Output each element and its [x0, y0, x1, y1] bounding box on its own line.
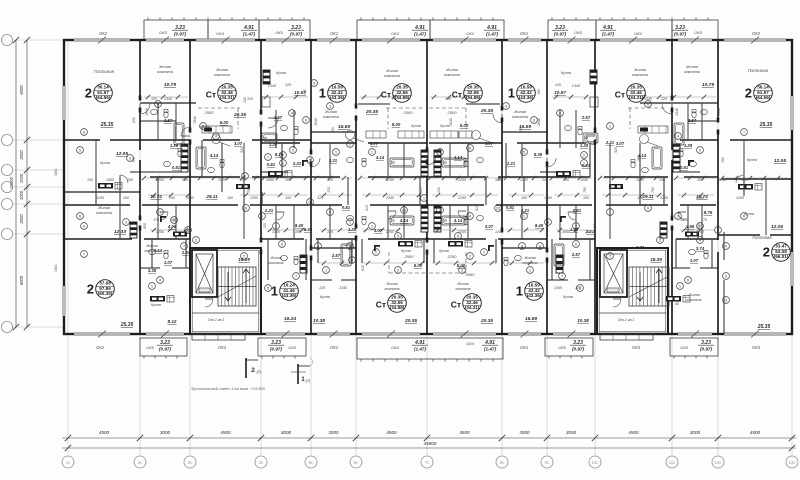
svg-text:100: 100 — [295, 230, 301, 234]
svg-text:100: 100 — [583, 196, 589, 200]
svg-text:2.57: 2.57 — [331, 253, 341, 258]
svg-text:(1.47): (1.47) — [602, 32, 614, 37]
svg-text:3000: 3000 — [690, 430, 701, 435]
svg-text:12.33: 12.33 — [114, 229, 126, 235]
svg-text:ОК5: ОК5 — [680, 345, 688, 350]
apartment marker 2 bottom left — [87, 280, 115, 299]
svg-text:12.05: 12.05 — [116, 151, 128, 157]
elevator right — [600, 250, 627, 297]
svg-text:4500: 4500 — [628, 430, 639, 435]
svg-text:18800: 18800 — [9, 177, 14, 189]
svg-text:4.96: 4.96 — [685, 224, 695, 229]
svg-text:комната: комната — [522, 261, 537, 265]
svg-text:4500: 4500 — [99, 430, 110, 435]
svg-text:Фронтальный навес 1 на отм. +2: Фронтальный навес 1 на отм. +23.900 — [191, 386, 266, 391]
svg-text:1060: 1060 — [544, 196, 552, 200]
corridor wall y=205 — [64, 204, 130, 206]
svg-text:1: 1 — [516, 284, 523, 299]
svg-text:2с: 2с — [138, 460, 143, 465]
svg-text:комната: комната — [632, 73, 648, 77]
svg-text:комната: комната — [686, 298, 701, 302]
svg-text:5: 5 — [309, 158, 311, 162]
svg-text:1200: 1200 — [250, 196, 258, 200]
stair flight left — [218, 267, 256, 306]
svg-text:3.07: 3.07 — [485, 141, 494, 146]
svg-text:9: 9 — [699, 148, 701, 152]
svg-text:2: 2 — [699, 224, 701, 228]
entrance platform right — [600, 334, 653, 340]
apartment marker 1 bottom x277 — [271, 282, 299, 301]
svg-text:8: 8 — [244, 174, 246, 178]
svg-text:45800: 45800 — [424, 441, 437, 446]
svg-text:3.07: 3.07 — [234, 141, 243, 146]
svg-text:10.38: 10.38 — [313, 318, 325, 324]
svg-text:9: 9 — [647, 206, 649, 210]
windows bottom wall — [74, 332, 130, 335]
svg-text:Кухня: Кухня — [411, 124, 421, 128]
svg-text:4: 4 — [559, 111, 561, 115]
svg-text:3.07: 3.07 — [370, 141, 379, 146]
svg-text:16.24: 16.24 — [284, 316, 296, 322]
svg-text:(0.97): (0.97) — [174, 32, 186, 37]
svg-text:25.35: 25.35 — [100, 122, 114, 128]
svg-text:7с: 7с — [425, 460, 430, 465]
svg-text:16.59: 16.59 — [338, 124, 350, 130]
svg-text:16.59: 16.59 — [519, 124, 531, 130]
svg-text:ОК1: ОК1 — [330, 31, 338, 36]
svg-text:2000: 2000 — [19, 150, 24, 161]
svg-text:7: 7 — [267, 155, 269, 159]
svg-text:(43.36): (43.36) — [527, 293, 542, 298]
svg-text:(0.97): (0.97) — [674, 32, 686, 37]
svg-text:100: 100 — [521, 196, 527, 200]
svg-text:1: 1 — [508, 86, 515, 101]
vertical tub bay 140-190 — [174, 123, 184, 145]
balcony bottom center large — [357, 338, 503, 359]
svg-text:2.57: 2.57 — [687, 118, 697, 123]
apartment marker Ст 4 — [615, 84, 646, 103]
svg-text:2290: 2290 — [385, 196, 394, 200]
svg-text:ОК4: ОК4 — [466, 341, 474, 346]
svg-text:4: 4 — [539, 244, 541, 248]
svg-text:5: 5 — [313, 81, 315, 85]
svg-text:Ст: Ст — [381, 90, 391, 100]
svg-text:8.12: 8.12 — [168, 319, 177, 324]
svg-text:100: 100 — [445, 97, 451, 101]
kitchen counters studio bays — [202, 126, 232, 133]
black corner symbols — [374, 245, 380, 251]
entrance platform left — [192, 334, 245, 340]
svg-text:3.74: 3.74 — [696, 246, 705, 251]
svg-text:(34.31): (34.31) — [465, 305, 480, 310]
left dim chain — [26, 40, 28, 327]
svg-text:4500: 4500 — [386, 430, 397, 435]
svg-text:100: 100 — [741, 178, 747, 182]
svg-text:2.57: 2.57 — [581, 115, 591, 120]
svg-text:3.07: 3.07 — [616, 141, 625, 146]
svg-text:ОК4: ОК4 — [391, 345, 399, 350]
svg-text:760: 760 — [721, 157, 725, 163]
svg-text:100: 100 — [563, 178, 569, 182]
svg-text:2.21: 2.21 — [264, 208, 274, 213]
stair arrows right — [658, 270, 660, 303]
svg-text:9: 9 — [547, 220, 549, 224]
svg-text:Жилая: Жилая — [513, 110, 526, 114]
svg-text:11с: 11с — [669, 460, 677, 465]
svg-text:(34.88): (34.88) — [395, 95, 410, 100]
svg-text:16.59: 16.59 — [525, 316, 537, 322]
svg-text:2.57: 2.57 — [273, 115, 283, 120]
svg-text:10.79: 10.79 — [702, 82, 714, 88]
svg-text:1.28: 1.28 — [684, 143, 693, 148]
svg-text:610: 610 — [361, 265, 365, 271]
svg-text:ОК1: ОК1 — [54, 168, 58, 175]
svg-text:(64.56): (64.56) — [96, 95, 111, 100]
svg-text:2250: 2250 — [457, 178, 466, 182]
svg-text:1с: 1с — [66, 460, 71, 465]
svg-text:550: 550 — [187, 155, 191, 161]
svg-text:комната: комната — [684, 70, 700, 74]
svg-text:ОК2: ОК2 — [752, 31, 761, 36]
svg-text:Ст: Ст — [452, 90, 462, 100]
svg-text:1200: 1200 — [636, 178, 644, 182]
svg-text:6: 6 — [157, 102, 159, 106]
svg-text:комната: комната — [96, 211, 112, 215]
svg-text:ОК2: ОК2 — [99, 31, 108, 36]
svg-text:4: 4 — [725, 244, 727, 248]
svg-text:1340: 1340 — [268, 84, 277, 88]
lower partitions y=280 — [311, 279, 332, 281]
svg-text:20.35: 20.35 — [404, 318, 417, 324]
svg-text:190: 190 — [537, 89, 541, 95]
axis wall x=261 — [260, 40, 262, 112]
dim chain line y=97 top bays — [144, 96, 188, 98]
svg-text:120: 120 — [419, 187, 423, 193]
balcony bottom small — [140, 338, 187, 356]
svg-text:3000: 3000 — [328, 430, 339, 435]
svg-text:3: 3 — [725, 298, 727, 302]
svg-text:1: 1 — [151, 284, 153, 288]
svg-text:Гостиная: Гостиная — [94, 69, 115, 74]
svg-text:8.75: 8.75 — [704, 210, 713, 215]
door swing arcs — [140, 104, 150, 114]
svg-text:Кухня: Кухня — [100, 161, 110, 165]
svg-text:12с: 12с — [714, 460, 722, 465]
svg-text:Сек.1 кв.1: Сек.1 кв.1 — [618, 318, 635, 322]
svg-text:6000: 6000 — [19, 275, 24, 285]
svg-text:(43.36): (43.36) — [519, 95, 534, 100]
svg-text:1: 1 — [282, 161, 284, 165]
svg-text:(64.56): (64.56) — [756, 95, 771, 100]
axis wall x=427 — [426, 40, 428, 150]
svg-text:0.81: 0.81 — [506, 205, 515, 210]
svg-text:760: 760 — [247, 187, 251, 193]
svg-text:(7): (7) — [257, 370, 262, 374]
svg-text:25.35: 25.35 — [120, 322, 134, 328]
svg-text:Кухня: Кухня — [747, 158, 757, 162]
svg-text:Жилая: Жилая — [687, 293, 699, 297]
svg-text:4: 4 — [159, 278, 161, 282]
svg-text:1340: 1340 — [554, 286, 562, 290]
svg-text:100: 100 — [659, 178, 665, 182]
svg-text:0.81: 0.81 — [172, 165, 181, 170]
svg-text:23: 23 — [496, 206, 500, 210]
svg-text:2250: 2250 — [385, 230, 394, 234]
svg-text:2.57: 2.57 — [163, 118, 173, 123]
vestibule divider left — [192, 312, 259, 314]
svg-text:1: 1 — [583, 161, 585, 165]
svg-text:ОК5: ОК5 — [574, 30, 582, 35]
svg-text:5: 5 — [397, 234, 399, 238]
extension lines horizontal left — [13, 39, 64, 41]
svg-text:3: 3 — [505, 104, 507, 108]
svg-text:4: 4 — [699, 238, 701, 242]
svg-text:2.21: 2.21 — [520, 208, 530, 213]
svg-text:(1.47): (1.47) — [484, 347, 496, 352]
svg-text:5с: 5с — [309, 460, 314, 465]
svg-text:5.40: 5.40 — [304, 227, 313, 232]
svg-text:120: 120 — [247, 97, 253, 101]
stairwell left walls — [190, 248, 261, 334]
svg-text:7: 7 — [83, 252, 85, 256]
svg-text:2: 2 — [243, 254, 245, 258]
axis wall x=547 — [546, 40, 548, 152]
svg-text:2250: 2250 — [155, 178, 164, 182]
svg-text:9: 9 — [83, 224, 85, 228]
svg-text:(1.47): (1.47) — [414, 32, 426, 37]
svg-text:120: 120 — [495, 178, 501, 182]
svg-text:ОК5: ОК5 — [275, 30, 283, 35]
svg-text:Жилая: Жилая — [145, 244, 157, 248]
svg-text:2.57: 2.57 — [571, 252, 581, 257]
axis wall x=190 — [189, 40, 191, 130]
svg-text:1200: 1200 — [660, 196, 668, 200]
svg-text:ОК3: ОК3 — [632, 345, 641, 350]
svg-text:2250: 2250 — [385, 178, 394, 182]
svg-text:1060: 1060 — [718, 178, 726, 182]
svg-text:1060: 1060 — [106, 178, 114, 182]
svg-text:3.07: 3.07 — [485, 224, 494, 229]
svg-text:Кухня: Кухня — [561, 71, 571, 75]
svg-text:ОК4: ОК4 — [466, 31, 474, 36]
svg-text:100: 100 — [123, 196, 129, 200]
svg-text:Ст: Ст — [451, 300, 461, 310]
svg-text:Жилая: Жилая — [324, 110, 337, 114]
svg-text:650: 650 — [132, 117, 136, 123]
svg-text:2: 2 — [763, 245, 770, 260]
apartment marker Ст bottom x384 — [376, 294, 407, 313]
svg-text:3: 3 — [397, 268, 399, 272]
svg-text:1: 1 — [523, 214, 525, 218]
svg-text:Жилая: Жилая — [456, 282, 468, 286]
svg-text:550: 550 — [331, 127, 335, 133]
svg-text:120: 120 — [327, 230, 333, 234]
svg-text:100: 100 — [585, 230, 591, 234]
svg-text:Кухня: Кухня — [563, 295, 573, 299]
svg-text:4.14: 4.14 — [453, 218, 463, 223]
axis wall x=718 — [717, 40, 719, 120]
svg-text:Кухня: Кухня — [439, 249, 449, 253]
svg-text:комната: комната — [384, 74, 400, 78]
svg-text:1: 1 — [202, 124, 204, 128]
svg-text:650: 650 — [143, 223, 147, 229]
svg-text:1200: 1200 — [520, 178, 528, 182]
svg-text:100: 100 — [169, 196, 175, 200]
svg-text:8.39: 8.39 — [534, 152, 543, 157]
svg-text:ОК1: ОК1 — [520, 345, 528, 350]
svg-text:2: 2 — [251, 367, 255, 374]
svg-text:1: 1 — [677, 214, 679, 218]
wall y=248 one-room bays bottom — [311, 247, 356, 249]
svg-text:0.81: 0.81 — [680, 165, 689, 170]
svg-text:4: 4 — [351, 258, 353, 262]
svg-text:(60.35): (60.35) — [98, 291, 113, 296]
svg-text:1000: 1000 — [19, 190, 24, 200]
svg-text:10.38: 10.38 — [577, 318, 589, 323]
svg-text:4: 4 — [317, 244, 319, 248]
svg-text:(34.31): (34.31) — [220, 95, 235, 100]
svg-text:4500: 4500 — [220, 430, 231, 435]
svg-text:4.14: 4.14 — [399, 218, 409, 223]
door jambs — [139, 96, 142, 101]
svg-text:4: 4 — [291, 111, 293, 115]
svg-text:120: 120 — [263, 223, 267, 229]
svg-text:Жилая: Жилая — [633, 68, 646, 72]
svg-text:2.21: 2.21 — [506, 161, 516, 166]
svg-text:6: 6 — [575, 242, 577, 246]
svg-text:100: 100 — [227, 196, 233, 200]
svg-text:(7): (7) — [306, 379, 311, 383]
elevator left — [192, 250, 217, 297]
balcony top A — [144, 20, 310, 40]
svg-text:120: 120 — [319, 286, 325, 290]
svg-text:ОК1: ОК1 — [520, 31, 528, 36]
dimension line bottom total — [62, 447, 796, 449]
svg-text:комната: комната — [512, 115, 528, 119]
svg-text:3: 3 — [125, 220, 127, 224]
svg-text:ОК5: ОК5 — [159, 30, 167, 35]
svg-text:2: 2 — [583, 153, 585, 157]
wall y=104 studio niche stubs — [358, 103, 390, 105]
svg-text:Сек.1 кв.1: Сек.1 кв.1 — [208, 318, 225, 322]
svg-text:1940: 1940 — [193, 116, 197, 124]
svg-text:3.07: 3.07 — [374, 228, 383, 233]
svg-text:7: 7 — [561, 274, 563, 278]
svg-text:4.14: 4.14 — [453, 155, 463, 160]
svg-text:(0.97): (0.97) — [159, 347, 171, 352]
svg-text:5: 5 — [79, 148, 81, 152]
svg-text:1940: 1940 — [145, 108, 149, 116]
svg-text:0.81: 0.81 — [267, 162, 276, 167]
svg-text:3: 3 — [579, 286, 581, 290]
svg-text:7: 7 — [295, 274, 297, 278]
svg-text:170: 170 — [701, 218, 707, 222]
svg-text:3: 3 — [329, 104, 331, 108]
svg-text:1340: 1340 — [572, 84, 581, 88]
svg-text:Гостиная: Гостиная — [752, 235, 772, 240]
svg-text:Жилая: Жилая — [385, 282, 397, 286]
wall y=140 upper band — [64, 139, 100, 141]
svg-text:1: 1 — [349, 220, 351, 224]
kitchen wall y=192 left — [64, 191, 140, 193]
dim chain line y=195 — [148, 194, 190, 196]
svg-text:1: 1 — [609, 210, 611, 214]
svg-text:760: 760 — [651, 187, 655, 193]
svg-text:1200: 1200 — [736, 196, 744, 200]
svg-text:комната: комната — [444, 73, 460, 77]
svg-text:ОК3: ОК3 — [752, 345, 761, 350]
svg-text:комната: комната — [455, 287, 470, 291]
axis circles left — [1, 34, 12, 45]
svg-text:120: 120 — [661, 97, 667, 101]
svg-text:170: 170 — [153, 218, 159, 222]
svg-text:12.05: 12.05 — [774, 158, 786, 164]
svg-text:6с: 6с — [354, 460, 359, 465]
bathroom top wall y=103 — [140, 102, 196, 104]
svg-text:100: 100 — [87, 178, 93, 182]
svg-text:(34.88): (34.88) — [390, 305, 405, 310]
svg-text:760: 760 — [583, 187, 587, 193]
kitchen stoves dark — [98, 183, 122, 190]
svg-text:5: 5 — [659, 238, 661, 242]
svg-text:Кухня: Кухня — [401, 249, 411, 253]
svg-text:1: 1 — [159, 210, 161, 214]
svg-text:29.11: 29.11 — [205, 194, 218, 199]
svg-text:6: 6 — [469, 146, 471, 150]
apartment marker Ст bottom x453 — [451, 294, 482, 313]
balcony dividers — [207, 20, 209, 40]
svg-text:1: 1 — [529, 268, 531, 272]
apartment marker 1 bottom x516 — [516, 282, 544, 301]
windows left wall — [62, 86, 65, 120]
corridor stub walls — [95, 177, 97, 205]
svg-text:0.81: 0.81 — [342, 205, 351, 210]
svg-text:4: 4 — [187, 228, 189, 232]
svg-text:ОК5: ОК5 — [288, 345, 296, 350]
svg-text:ОК1: ОК1 — [54, 264, 58, 271]
svg-text:6: 6 — [305, 118, 307, 122]
svg-text:20.35: 20.35 — [365, 109, 378, 115]
svg-text:8: 8 — [521, 244, 523, 248]
svg-text:Жилая: Жилая — [269, 256, 281, 260]
svg-text:100: 100 — [127, 178, 133, 182]
windows right wall — [790, 96, 793, 130]
entrance door arc left — [205, 299, 213, 307]
svg-text:2.21: 2.21 — [605, 140, 615, 145]
svg-text:2: 2 — [371, 224, 373, 228]
svg-text:комната: комната — [157, 70, 173, 74]
svg-text:1940: 1940 — [314, 118, 318, 126]
svg-text:100: 100 — [542, 178, 548, 182]
svg-text:2250: 2250 — [447, 254, 458, 259]
svg-text:10.74: 10.74 — [150, 194, 162, 199]
svg-text:ОК5: ОК5 — [694, 30, 702, 35]
svg-text:6: 6 — [533, 118, 535, 122]
svg-text:1.07: 1.07 — [164, 260, 173, 265]
svg-text:2500: 2500 — [447, 110, 458, 115]
svg-text:4с: 4с — [259, 460, 264, 465]
svg-text:ОК5: ОК5 — [146, 345, 154, 350]
apartment marker 1 top x515 — [508, 84, 536, 103]
axis wall x=311 — [310, 40, 312, 152]
apartment marker 2 right top — [745, 84, 773, 103]
svg-text:комната: комната — [268, 261, 283, 265]
svg-text:120: 120 — [243, 97, 247, 103]
svg-text:Кухня: Кухня — [276, 71, 286, 75]
svg-text:3000: 3000 — [160, 430, 171, 435]
corridor wall y=179 right column — [722, 178, 792, 180]
svg-text:комната: комната — [323, 115, 339, 119]
